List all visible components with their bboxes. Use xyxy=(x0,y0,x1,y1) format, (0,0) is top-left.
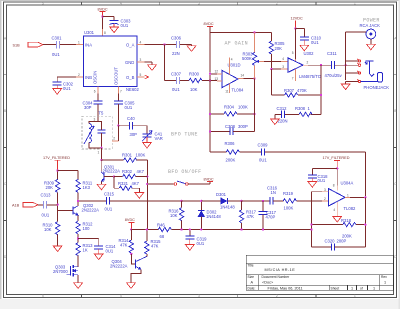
svg-text:0U1: 0U1 xyxy=(172,87,180,92)
capacitor C308 feedback xyxy=(210,124,255,135)
wire R301 to BFO column xyxy=(137,160,148,229)
svg-text:470K: 470K xyxy=(297,88,307,93)
resistor R318 xyxy=(312,218,366,239)
svg-text:10K: 10K xyxy=(44,227,52,232)
svg-text:8VDC: 8VDC xyxy=(125,218,135,222)
wire C313 to node xyxy=(47,204,58,206)
connector S1B xyxy=(13,42,44,47)
svg-text:D301: D301 xyxy=(216,192,227,197)
power 8VDC at U301 xyxy=(98,7,108,16)
capacitor C317 xyxy=(259,201,277,230)
node junction Q304 base xyxy=(130,253,132,255)
svg-text:C301: C301 xyxy=(52,36,63,41)
ground at C312 xyxy=(271,119,280,125)
ground at C302 xyxy=(53,85,62,94)
svg-text:30P: 30P xyxy=(84,105,92,110)
resistor R46 xyxy=(157,223,171,239)
transformer T5 xyxy=(82,111,112,149)
ground at RCA xyxy=(367,44,376,50)
svg-text:0U1: 0U1 xyxy=(106,249,114,254)
wire feedback pin2 column xyxy=(312,192,323,247)
wire U301 pin3 GND to ground xyxy=(137,58,152,65)
svg-text:O_B: O_B xyxy=(126,75,135,80)
wire 8VDC column down to feedback rows xyxy=(209,26,211,152)
svg-text:7: 7 xyxy=(120,90,122,94)
svg-text:3: 3 xyxy=(324,188,326,192)
wire C40 to C41 xyxy=(133,126,148,134)
svg-text:0U1: 0U1 xyxy=(63,86,71,91)
resistor R301 xyxy=(122,152,145,162)
wire C307 to R302 xyxy=(180,80,189,82)
wire U301 pin4 O_A to C306 xyxy=(137,41,176,45)
svg-text:Document Number: Document Number xyxy=(262,275,291,279)
node junction C319 xyxy=(189,228,191,230)
ground at C303 xyxy=(110,24,119,33)
svg-text:R301: R301 xyxy=(122,152,133,157)
capacitor C309 xyxy=(258,142,269,162)
ground at R321 xyxy=(135,193,144,199)
svg-text:200K: 200K xyxy=(226,157,236,162)
node junction R316 top xyxy=(180,200,182,202)
node junction R304 right xyxy=(253,113,255,115)
power 8VDC at U301D xyxy=(204,22,214,26)
svg-text:A1B: A1B xyxy=(12,204,20,208)
svg-text:2N2222A: 2N2222A xyxy=(82,207,100,212)
op-amp U304A xyxy=(322,181,356,212)
resistor R319 xyxy=(283,191,296,210)
wire audio chain R316 to D302 xyxy=(182,200,202,202)
svg-text:2N7000: 2N7000 xyxy=(53,269,68,274)
wire C311 to jack column xyxy=(334,64,345,66)
resistor R302 xyxy=(114,169,147,179)
wire 17V column xyxy=(57,171,59,180)
svg-text:TL084: TL084 xyxy=(232,88,245,93)
capacitor C303 xyxy=(110,18,132,27)
svg-text:RCA JACK: RCA JACK xyxy=(360,23,381,28)
svg-text:12: 12 xyxy=(215,70,219,74)
svg-text:TL082: TL082 xyxy=(344,206,357,211)
power 8VDC at switch xyxy=(204,177,214,181)
op-amp U301D xyxy=(210,57,244,93)
ground at U301 pin3 xyxy=(148,65,157,71)
svg-text:30P: 30P xyxy=(130,132,138,137)
svg-text:22N: 22N xyxy=(172,51,180,56)
wire R309 to node xyxy=(57,192,59,221)
wire feedback column right xyxy=(364,197,366,247)
svg-text:300P: 300P xyxy=(238,124,248,129)
resistor R300 xyxy=(189,71,202,92)
svg-text:5: 5 xyxy=(42,2,44,6)
svg-text:470P: 470P xyxy=(266,214,276,219)
wire R313 to Q303 drain xyxy=(77,256,79,267)
svg-text:1: 1 xyxy=(354,294,356,298)
svg-text:R321: R321 xyxy=(118,181,129,186)
connector phone jack contacts xyxy=(357,59,361,83)
capacitor C302 xyxy=(53,82,74,91)
capacitor C314 xyxy=(94,244,116,253)
svg-text:R304: R304 xyxy=(224,105,235,110)
power 17V_FILTERED right xyxy=(323,156,350,168)
resistor R314 xyxy=(119,230,134,254)
wire C306 to ground xyxy=(180,45,192,46)
svg-text:0U1: 0U1 xyxy=(125,105,133,110)
svg-text:3: 3 xyxy=(198,2,200,6)
svg-text:1: 1 xyxy=(373,287,375,291)
svg-text:100K: 100K xyxy=(238,105,248,110)
node junction pin12 xyxy=(209,73,211,75)
transistor Q304 xyxy=(110,254,147,270)
svg-text:U304A: U304A xyxy=(341,181,354,186)
svg-text:14: 14 xyxy=(241,74,245,78)
svg-text:MS/CIA HR-1E: MS/CIA HR-1E xyxy=(265,268,296,272)
svg-text:2: 2 xyxy=(324,197,326,201)
capacitor C316 xyxy=(267,186,278,205)
svg-text:0U1: 0U1 xyxy=(105,206,113,211)
svg-text:0U1: 0U1 xyxy=(311,40,319,45)
svg-text:BFO ON/OFF: BFO ON/OFF xyxy=(168,169,202,175)
wire S1B to C301 xyxy=(43,44,56,46)
svg-text:5: 5 xyxy=(292,51,294,55)
svg-text:8VDC: 8VDC xyxy=(204,177,214,181)
svg-text:C320: C320 xyxy=(325,238,336,243)
node junction Q302 collector xyxy=(77,200,79,202)
wire R319 to U304A pin3 xyxy=(296,197,328,201)
svg-text:R302: R302 xyxy=(122,169,133,174)
svg-text:0U1: 0U1 xyxy=(52,52,60,57)
connector A1B xyxy=(12,203,38,208)
capacitor C312 xyxy=(277,106,288,123)
wire to C310 xyxy=(295,29,304,37)
wire node to R301 xyxy=(102,159,124,161)
svg-text:C308: C308 xyxy=(225,124,236,129)
node junction switch wire xyxy=(146,183,148,185)
node junction R318 left xyxy=(310,223,312,225)
op-amp mixer IC U301 NE602 xyxy=(83,30,139,92)
svg-text:C313: C313 xyxy=(41,193,52,198)
node junction R302 right xyxy=(146,175,148,177)
svg-text:Sheet: Sheet xyxy=(331,287,340,291)
svg-text:GND: GND xyxy=(125,60,134,65)
resistor R313 xyxy=(76,243,93,256)
capacitor C310 xyxy=(300,35,322,44)
wire jack contact rows xyxy=(346,61,359,84)
svg-text:2: 2 xyxy=(276,2,278,6)
wire U302 output to C311 xyxy=(303,60,331,65)
wire 17V to U304A pin8 xyxy=(333,168,337,190)
node junction O_A xyxy=(163,43,165,45)
wire Q304 emitter to ground xyxy=(131,269,141,282)
capacitor C315 xyxy=(104,191,115,211)
node junction pot top xyxy=(253,31,255,33)
diode D302 xyxy=(198,201,221,230)
svg-text:1K3: 1K3 xyxy=(83,185,91,190)
svg-text:T5: T5 xyxy=(99,111,105,116)
node junction C313 base xyxy=(56,204,58,206)
svg-text:12VDC: 12VDC xyxy=(291,17,303,21)
wire R310 to ground xyxy=(57,235,59,246)
svg-text:1: 1 xyxy=(98,151,100,155)
wire R312 to node xyxy=(77,234,79,243)
svg-text:4K7: 4K7 xyxy=(137,169,145,174)
resistor R309 xyxy=(44,179,60,192)
svg-text:1: 1 xyxy=(351,287,353,291)
wire C301 to U301 pin1 xyxy=(60,41,84,45)
resistor R315 xyxy=(145,230,162,257)
node junction C305 C40 xyxy=(117,125,119,127)
wire U304A pin4 to ground xyxy=(336,202,338,216)
svg-text:8: 8 xyxy=(104,31,106,35)
svg-text:17V_FILTERED: 17V_FILTERED xyxy=(43,156,70,160)
node junction R316 bottom xyxy=(180,228,182,230)
svg-text:4: 4 xyxy=(282,57,284,61)
wire 200K row xyxy=(210,152,365,197)
node junction output pot xyxy=(253,77,255,79)
resistor R307 xyxy=(284,88,307,97)
capacitor C301 xyxy=(52,36,63,57)
wire A1B to C313 xyxy=(38,204,43,206)
svg-text:1K: 1K xyxy=(83,247,88,252)
node junction R301 left xyxy=(100,159,102,161)
wire to C303 xyxy=(102,17,114,21)
svg-text:Date:: Date: xyxy=(248,287,256,291)
svg-text:20K: 20K xyxy=(46,185,54,190)
wire T5 internal top xyxy=(89,122,102,130)
wire 8VDC to U301 pin8 xyxy=(102,17,106,37)
power 8VDC at Q304 xyxy=(125,218,135,229)
svg-text:4: 4 xyxy=(120,2,122,6)
svg-text:of: of xyxy=(360,287,363,291)
svg-text:Rev: Rev xyxy=(381,275,387,279)
node junction jack column xyxy=(344,64,346,66)
ground at jack sleeve xyxy=(341,84,350,90)
wire to C318 xyxy=(312,168,337,174)
capacitor C319 xyxy=(185,230,207,246)
resistor R321 xyxy=(114,177,140,193)
svg-text:R308: R308 xyxy=(295,106,306,111)
node junction R317 bottom xyxy=(240,228,242,230)
svg-text:NE602: NE602 xyxy=(126,87,139,92)
capacitor C311 xyxy=(325,51,343,78)
svg-text:8VDC: 8VDC xyxy=(98,7,108,11)
wire Q301 emitter to ground xyxy=(100,181,102,184)
svg-text:470u/25v: 470u/25v xyxy=(325,73,343,78)
svg-text:3: 3 xyxy=(198,294,200,298)
svg-text:Size: Size xyxy=(248,275,255,279)
power 12VDC at U302 xyxy=(291,17,303,29)
node junction R313 C314 xyxy=(77,237,79,239)
svg-text:R319: R319 xyxy=(283,191,294,196)
svg-text:1N4148: 1N4148 xyxy=(220,205,235,210)
svg-text:C311: C311 xyxy=(327,51,337,56)
node junction R317 top xyxy=(240,200,242,202)
svg-text:INB: INB xyxy=(85,75,92,80)
power 17V_FILTERED left xyxy=(43,156,70,171)
ground at C306 xyxy=(187,46,196,52)
svg-text:1: 1 xyxy=(384,280,386,284)
transistor Q301 xyxy=(101,160,120,181)
capacitor C306 xyxy=(171,35,182,56)
resistor R317 xyxy=(239,201,256,230)
wire U301D output xyxy=(238,78,255,80)
resistor R310 xyxy=(43,222,60,235)
diode D301 xyxy=(216,192,235,209)
wire C305 down to node xyxy=(117,104,119,126)
ground at Q304 xyxy=(127,283,136,289)
wire U301 pin5 O_B stub xyxy=(137,73,149,79)
svg-text:OSCOUT: OSCOUT xyxy=(113,67,118,85)
capacitor C304 xyxy=(83,101,103,110)
svg-text:10K: 10K xyxy=(170,213,178,218)
svg-text:1: 1 xyxy=(78,41,80,45)
capacitor C313 xyxy=(41,193,52,218)
ground at C41 xyxy=(143,137,152,148)
svg-text:B: B xyxy=(4,109,6,113)
wire feedback column xyxy=(254,79,256,132)
svg-text:C307: C307 xyxy=(171,71,182,76)
svg-text:5: 5 xyxy=(140,73,142,77)
wire branch to R311 xyxy=(58,171,79,180)
svg-text:3: 3 xyxy=(94,117,96,121)
wire C304 to T5 pin3 xyxy=(94,104,98,122)
wire feedback R307 xyxy=(271,65,321,95)
wire C316 to R319 xyxy=(273,200,284,202)
node junction base R302 R321 xyxy=(113,175,115,177)
ground at C314 xyxy=(94,249,103,260)
resistor R312 xyxy=(76,221,93,234)
node junction R304 left xyxy=(209,113,211,115)
connector phone jack body xyxy=(361,61,383,82)
transistor Q303 2N7000 xyxy=(53,265,78,277)
svg-text:13: 13 xyxy=(215,77,219,81)
resistor R311 xyxy=(76,179,93,192)
svg-text:BFO TUNE: BFO TUNE xyxy=(171,131,198,137)
ground at C319 xyxy=(185,239,194,250)
svg-text:R300: R300 xyxy=(189,71,200,76)
svg-text:OSCIN: OSCIN xyxy=(93,71,98,84)
wire T5 internal bottom xyxy=(89,133,102,148)
node junction C318 branch xyxy=(336,167,338,169)
node junction U302 output xyxy=(320,64,322,66)
wire pot wiper to U302 pin4 xyxy=(256,57,288,63)
svg-text:B: B xyxy=(394,109,396,113)
svg-text:47K: 47K xyxy=(120,243,128,248)
wire R305 to U302 pin3 xyxy=(271,54,288,69)
svg-text:2N2222A: 2N2222A xyxy=(103,169,121,174)
wire U301 pin7 to C305 xyxy=(118,87,122,101)
node junction R318 right xyxy=(364,223,366,225)
svg-text:2: 2 xyxy=(276,294,278,298)
svg-text:0U1: 0U1 xyxy=(259,157,267,162)
svg-text:1: 1 xyxy=(354,2,356,6)
node junction R307 zobel xyxy=(320,94,322,96)
svg-text:4: 4 xyxy=(140,41,142,45)
svg-text:3: 3 xyxy=(140,58,142,62)
svg-text:INA: INA xyxy=(85,42,92,47)
wire D301 to R317 xyxy=(227,200,241,202)
svg-text:2N2222A: 2N2222A xyxy=(110,263,128,268)
ground at C318 xyxy=(308,178,317,187)
wire O_A down to C307 row xyxy=(165,45,177,81)
node junction pin13 xyxy=(209,79,211,81)
svg-text:C40: C40 xyxy=(127,116,135,121)
svg-text:R306: R306 xyxy=(225,141,236,146)
svg-text:0U1: 0U1 xyxy=(318,178,326,183)
ground at R310 xyxy=(53,246,62,252)
ground at U304A xyxy=(333,216,342,222)
svg-text:8: 8 xyxy=(333,184,335,188)
wire node to C40 xyxy=(118,125,129,127)
svg-text:<Doc>: <Doc> xyxy=(262,280,274,284)
node junction rail pin2 xyxy=(310,228,312,230)
svg-text:4: 4 xyxy=(231,57,233,61)
transistor Q302 xyxy=(58,203,100,215)
op-amp U302 LM4875 xyxy=(288,51,322,81)
wire T5 pin1 to R301 node xyxy=(98,148,102,160)
svg-text:0U1: 0U1 xyxy=(121,23,129,28)
wire zobel row xyxy=(275,95,321,119)
svg-text:U301: U301 xyxy=(84,30,95,35)
svg-text:R318: R318 xyxy=(341,218,352,223)
wire Q301 base to node xyxy=(104,176,114,178)
wire RCA tip to jack column xyxy=(346,32,366,80)
svg-text:C309: C309 xyxy=(258,142,269,147)
svg-text:2: 2 xyxy=(78,73,80,77)
ground at Q303 xyxy=(74,283,83,289)
svg-text:4: 4 xyxy=(120,294,122,298)
wire C315 to audio chain xyxy=(110,200,182,202)
wire top rail to R305 xyxy=(210,32,271,41)
svg-text:6: 6 xyxy=(94,90,96,94)
resistor R305 xyxy=(269,41,285,54)
ground at C310 xyxy=(300,40,309,51)
svg-text:100: 100 xyxy=(83,226,91,231)
wire Q302 emitter to R312 xyxy=(77,215,79,221)
wire U301 pin6 to C304 xyxy=(94,87,98,101)
wire R311 to Q302 collector and C315 xyxy=(78,192,106,205)
wire U301 pin2 to C302 xyxy=(57,73,83,82)
svg-text:4K7: 4K7 xyxy=(132,181,140,186)
svg-text:C315: C315 xyxy=(104,191,115,196)
svg-text:PHONEJACK: PHONEJACK xyxy=(364,85,390,90)
wire chain to C316 xyxy=(242,200,270,202)
svg-text:7: 7 xyxy=(292,77,294,81)
svg-text:1N4148: 1N4148 xyxy=(206,214,221,219)
svg-text:47K: 47K xyxy=(151,244,159,249)
svg-text:11: 11 xyxy=(225,89,229,93)
svg-text:8VDC: 8VDC xyxy=(204,22,214,26)
capacitor C40 xyxy=(127,116,137,137)
wire U304A output xyxy=(345,196,365,198)
svg-text:C306: C306 xyxy=(171,35,182,40)
svg-text:10K: 10K xyxy=(190,87,198,92)
capacitor C318 xyxy=(308,174,328,183)
svg-text:R307: R307 xyxy=(284,88,295,93)
svg-text:100K: 100K xyxy=(136,152,146,157)
node junction output xyxy=(364,196,366,198)
node junction T5 bottom xyxy=(100,147,102,149)
resistor R308 xyxy=(295,106,312,116)
node junction 17V branch xyxy=(56,169,58,171)
node junction 12VDC branch xyxy=(294,27,296,29)
ground at Q301 xyxy=(97,184,106,190)
svg-text:U302: U302 xyxy=(304,51,315,56)
svg-text:2: 2 xyxy=(113,137,115,141)
node junction C317 bottom xyxy=(262,228,264,230)
capacitor C307 xyxy=(171,71,182,92)
resistor R306 xyxy=(225,141,240,162)
capacitor C320 xyxy=(312,238,366,250)
node junction C308 left xyxy=(209,130,211,132)
